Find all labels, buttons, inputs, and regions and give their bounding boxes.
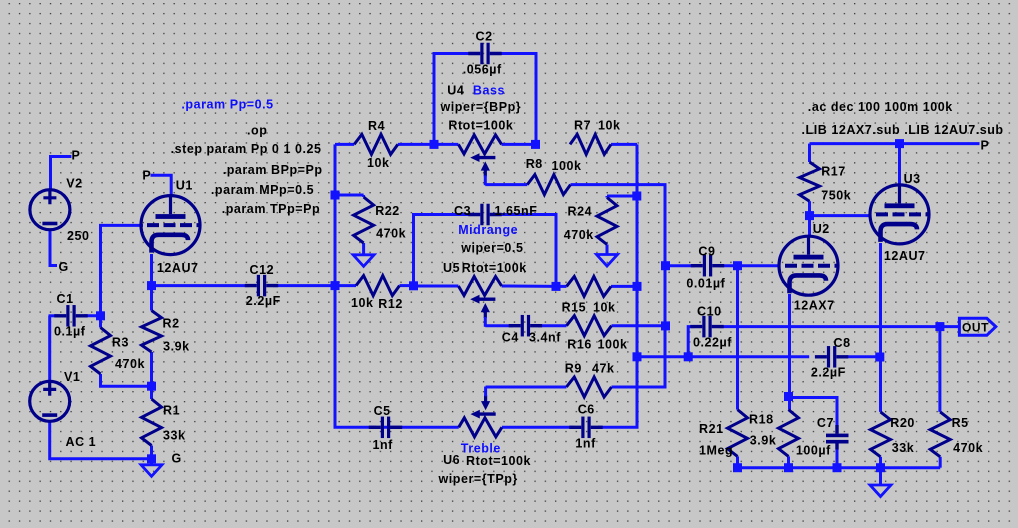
- svg-text:R22: R22: [375, 204, 400, 218]
- svg-text:U4: U4: [447, 84, 464, 98]
- svg-text:Rtot=100k: Rtot=100k: [448, 119, 513, 133]
- svg-text:Rtot=100k: Rtot=100k: [462, 261, 527, 275]
- svg-text:U3: U3: [904, 172, 921, 186]
- wire U3 plate: [898, 144, 901, 185]
- resistor R9: [566, 377, 611, 397]
- wire C1 right to junction: [84, 314, 101, 317]
- svg-text:R16: R16: [567, 337, 592, 351]
- svg-text:R12: R12: [378, 297, 403, 311]
- svg-text:P: P: [142, 169, 151, 183]
- wire U3 cathode down to R20: [879, 243, 882, 412]
- svg-text:0.1µf: 0.1µf: [54, 325, 86, 339]
- wire R3 bottom to R1 top junction: [101, 374, 152, 386]
- wire to C7 top: [790, 398, 838, 426]
- svg-text:V1: V1: [64, 370, 80, 384]
- node row357 left: [633, 352, 642, 361]
- svg-text:Rtot=100k: Rtot=100k: [466, 454, 531, 468]
- wire rail to R4: [335, 143, 354, 146]
- potentiometer U6 Treble: [459, 418, 502, 437]
- svg-text:470k: 470k: [376, 227, 406, 241]
- svg-text:3.4nf: 3.4nf: [529, 331, 561, 345]
- wire row y=357 to C8: [637, 355, 809, 358]
- svg-text:R24: R24: [568, 204, 593, 218]
- svg-text:10k: 10k: [351, 296, 374, 310]
- wire rail to R12: [335, 284, 356, 287]
- node R16/C4: [661, 321, 670, 330]
- svg-text:R21: R21: [699, 422, 724, 436]
- svg-text:R1: R1: [163, 403, 180, 417]
- capacitor C7: [826, 434, 849, 438]
- capacitor C1: [66, 305, 69, 327]
- node bass left: [430, 140, 439, 149]
- wire top rail to node P: [810, 142, 980, 145]
- svg-text:wiper={BPp}: wiper={BPp}: [440, 100, 522, 114]
- wire top rail to R17: [808, 144, 811, 162]
- resistor R22: [354, 197, 374, 243]
- wire C10 left stub: [688, 327, 694, 357]
- voltage source V1: [30, 381, 70, 421]
- svg-text:1.65nF: 1.65nF: [495, 204, 538, 218]
- svg-text:U1: U1: [176, 179, 193, 193]
- resistor R1: [142, 399, 162, 446]
- svg-text:R17: R17: [821, 164, 846, 178]
- svg-text:100µf: 100µf: [796, 443, 831, 457]
- capacitor C10: [702, 316, 705, 338]
- voltage source V2: [30, 190, 70, 230]
- wire junction to R15: [556, 285, 567, 288]
- wire R21 bottom to rail: [736, 456, 739, 467]
- wire junction to R22: [335, 194, 364, 197]
- svg-text:OUT: OUT: [962, 321, 989, 335]
- svg-text:R4: R4: [368, 119, 385, 133]
- potentiometer U5 Midrange: [458, 277, 501, 296]
- svg-text:P: P: [981, 139, 990, 153]
- svg-text:47k: 47k: [592, 362, 615, 376]
- node rail/C12: [331, 281, 340, 290]
- capacitor C9: [703, 255, 706, 277]
- capacitor C6: [581, 417, 584, 439]
- wire midrange pot right: [502, 285, 556, 288]
- svg-text:R2: R2: [163, 317, 180, 331]
- svg-text:0.22µf: 0.22µf: [693, 335, 732, 349]
- svg-text:.param BPp=Pp: .param BPp=Pp: [223, 163, 323, 177]
- capacitor C8: [827, 346, 830, 368]
- node U2 plate/R17: [805, 211, 814, 220]
- node flag OUT: [959, 318, 995, 335]
- wire U1 cathode to C12: [152, 284, 250, 287]
- svg-text:3.9k: 3.9k: [163, 339, 190, 353]
- node R7/R24: [632, 192, 641, 201]
- wire U2 plate to U3 grid: [810, 214, 870, 217]
- svg-text:V2: V2: [66, 177, 82, 191]
- node C10 stub: [684, 352, 693, 361]
- node rail R21: [733, 463, 742, 472]
- svg-text:wiper=0.5: wiper=0.5: [460, 241, 523, 255]
- resistor R12: [356, 276, 400, 296]
- resistor R17: [800, 162, 820, 201]
- wire R24 stub: [606, 196, 609, 198]
- svg-text:.ac dec 100 100m 100k: .ac dec 100 100m 100k: [808, 100, 953, 114]
- node U3 plate/P rail: [895, 139, 904, 148]
- svg-text:G: G: [59, 260, 69, 274]
- wire R22 bottom to ground: [362, 243, 365, 255]
- wire C1 junction up to U1 grid: [101, 225, 144, 315]
- capacitor C5: [381, 417, 384, 439]
- svg-text:12AX7: 12AX7: [794, 299, 835, 313]
- resistor R18: [779, 410, 799, 457]
- node rail R20/gnd: [876, 463, 885, 472]
- wire up to C3 left: [414, 215, 472, 286]
- wire bass pot right: [502, 143, 536, 146]
- resistor R24: [597, 198, 617, 245]
- resistor R2: [142, 311, 162, 353]
- svg-text:U5: U5: [443, 261, 460, 275]
- resistor R4: [354, 134, 398, 154]
- ground bottom right: [870, 485, 891, 497]
- wire junction to C9: [666, 264, 695, 267]
- wire left rail x=335 from R4 down to C5: [335, 144, 376, 427]
- ground below R22: [353, 255, 374, 266]
- wire R24 bottom to ground: [606, 245, 609, 255]
- wire R16 right to junction x=665.5: [612, 324, 666, 327]
- svg-text:2.2µF: 2.2µF: [811, 366, 846, 380]
- svg-text:.param Pp=0.5: .param Pp=0.5: [181, 98, 273, 112]
- wire V1 bottom to ground rail: [50, 421, 152, 459]
- svg-text:470k: 470k: [953, 441, 983, 455]
- node mid right: [552, 282, 561, 291]
- svg-text:.op: .op: [247, 124, 267, 138]
- resistor R7: [570, 134, 611, 154]
- wire junction to R2 top: [150, 286, 153, 311]
- node rail C7: [833, 463, 842, 472]
- wire C5 to treble pot: [381, 426, 459, 429]
- svg-text:C5: C5: [374, 404, 391, 418]
- wire V2 bottom to node G: [50, 230, 57, 266]
- svg-text:10k: 10k: [367, 156, 390, 170]
- wire C9 right to U2 grid: [720, 264, 780, 267]
- wire junction to U2 plate: [808, 216, 811, 237]
- wire to bass pot left: [434, 143, 458, 146]
- wire U1 cathode down: [150, 254, 153, 286]
- svg-text:R8: R8: [526, 157, 543, 171]
- svg-text:C8: C8: [834, 336, 851, 350]
- wire midrange wiper to C4: [485, 324, 512, 327]
- node U1 cathode: [147, 281, 156, 290]
- svg-text:Bass: Bass: [473, 84, 505, 98]
- svg-text:C6: C6: [578, 402, 595, 416]
- node rail/R22: [331, 191, 340, 200]
- svg-text:470k: 470k: [115, 357, 145, 371]
- svg-text:.param MPp=0.5: .param MPp=0.5: [211, 183, 314, 197]
- svg-text:2.2µF: 2.2µF: [246, 294, 281, 308]
- svg-text:33k: 33k: [892, 441, 915, 455]
- ground below R1: [141, 465, 162, 477]
- wire R9 right: [612, 386, 666, 389]
- triode U3: [870, 185, 931, 244]
- wire R8 right down x=665.5 to R9: [571, 185, 666, 387]
- svg-text:10k: 10k: [598, 119, 621, 133]
- resistor R8: [527, 175, 570, 195]
- node C9 right/U2 grid: [733, 261, 742, 270]
- node U2 cathode/R18: [784, 392, 793, 401]
- svg-text:1Meg: 1Meg: [699, 444, 733, 458]
- svg-text:750k: 750k: [821, 189, 851, 203]
- wire R17 bottom to junction: [808, 201, 811, 215]
- node R2/R1: [147, 382, 156, 391]
- svg-text:C10: C10: [697, 305, 722, 319]
- wire treble pot to C6: [502, 426, 574, 429]
- wire R1 bottom to ground: [150, 446, 153, 465]
- resistor R5: [930, 412, 950, 457]
- triode U2: [779, 236, 840, 295]
- svg-text:3.9k: 3.9k: [750, 433, 777, 447]
- svg-text:33k: 33k: [163, 428, 186, 442]
- wire bass wiper to R8: [485, 183, 527, 186]
- wire to P label: [51, 155, 72, 158]
- wire treble wiper row to R9: [486, 386, 567, 389]
- wire R20 bottom to rail: [879, 457, 882, 468]
- node OUT/R5: [935, 322, 944, 331]
- svg-text:C3: C3: [454, 204, 471, 218]
- svg-text:U6: U6: [443, 453, 460, 467]
- svg-text:C9: C9: [698, 244, 715, 258]
- wire R4 to bass-left junction: [398, 143, 434, 146]
- wire R24 top to junction: [607, 195, 637, 198]
- wire C2 right down to bass-right junction: [495, 54, 537, 145]
- svg-text:C7: C7: [817, 416, 834, 430]
- wire R12 to C3 junction: [400, 284, 414, 287]
- wire U2 cathode down to R18: [788, 294, 791, 410]
- svg-text:C2: C2: [476, 29, 493, 43]
- wire P to U1 plate: [151, 175, 172, 196]
- wire up to C2 left: [434, 54, 476, 145]
- wire junction to R3 top: [99, 316, 102, 328]
- wire long vertical x=637 down to C6: [598, 144, 637, 427]
- node rail R18: [784, 463, 793, 472]
- svg-text:12AU7: 12AU7: [884, 249, 926, 263]
- svg-text:R3: R3: [112, 335, 129, 349]
- capacitor C4: [521, 315, 524, 337]
- svg-text:R18: R18: [749, 412, 774, 426]
- wire C7 bottom to rail: [836, 444, 839, 468]
- svg-text:R5: R5: [952, 416, 969, 430]
- svg-text:wiper={TPp}: wiper={TPp}: [438, 472, 518, 486]
- wire OUT row down to R5: [938, 327, 941, 412]
- resistor R20: [871, 412, 891, 457]
- wire R22 top: [362, 195, 365, 197]
- wire R2 bottom to R1 top: [150, 352, 153, 399]
- wire rail corner up to R5: [939, 457, 942, 468]
- svg-text:12AU7: 12AU7: [157, 261, 199, 275]
- ground below R24: [597, 255, 618, 267]
- node mid left: [409, 281, 418, 290]
- svg-text:1nf: 1nf: [373, 438, 394, 452]
- node bass right: [531, 140, 540, 149]
- svg-text:.056µf: .056µf: [463, 63, 502, 77]
- svg-text:100k: 100k: [598, 337, 628, 351]
- resistor R15: [567, 276, 612, 296]
- resistor R16: [567, 316, 612, 336]
- svg-text:0.01µf: 0.01µf: [686, 277, 725, 291]
- node C1/R3: [96, 311, 105, 320]
- svg-text:R15: R15: [562, 300, 587, 314]
- wire C8 right to junction: [848, 355, 881, 358]
- svg-text:C12: C12: [250, 263, 275, 277]
- svg-text:.step param Pp 0 1 0.25: .step param Pp 0 1 0.25: [171, 142, 322, 156]
- wire C12 to left rail junction: [273, 284, 335, 287]
- svg-text:C1: C1: [57, 292, 74, 306]
- svg-text:R7: R7: [574, 119, 591, 133]
- node V1/R1 G: [147, 454, 156, 463]
- svg-text:100k: 100k: [552, 159, 582, 173]
- node C8/R20/U3 cathode: [875, 353, 884, 362]
- svg-text:R9: R9: [565, 362, 582, 376]
- wire C3 right down: [499, 215, 556, 287]
- wire C4 to R16: [538, 324, 567, 327]
- node R15: [633, 282, 642, 291]
- svg-text:AC 1: AC 1: [66, 435, 97, 449]
- svg-text:P: P: [72, 149, 81, 163]
- wire to midrange pot left: [414, 285, 459, 288]
- wire junction down to R21: [736, 266, 739, 410]
- capacitor C12: [257, 275, 260, 297]
- potentiometer U4 Bass: [458, 135, 501, 154]
- resistor R3: [91, 328, 111, 375]
- wire R18 bottom to rail: [787, 456, 790, 467]
- wire R15 right to junction: [611, 285, 637, 288]
- svg-text:.LIB 12AX7.sub .LIB 12AU7.sub: .LIB 12AX7.sub .LIB 12AU7.sub: [802, 123, 1004, 137]
- svg-text:U2: U2: [813, 222, 830, 236]
- wire V1 top to C1: [48, 316, 51, 382]
- wire to ground bottom right: [879, 468, 882, 485]
- svg-text:470k: 470k: [564, 228, 594, 242]
- svg-text:G: G: [172, 451, 182, 465]
- svg-text:1nf: 1nf: [575, 436, 596, 450]
- svg-text:10k: 10k: [593, 300, 616, 314]
- node C9 left: [661, 261, 670, 270]
- wire C10 right to OUT: [720, 325, 960, 328]
- svg-text:C4: C4: [502, 331, 519, 345]
- triode U1: [141, 196, 202, 255]
- capacitor C2: [480, 43, 483, 65]
- wire V2 top to node P: [49, 155, 52, 190]
- wire C1 left: [49, 314, 59, 317]
- svg-text:250: 250: [67, 229, 90, 243]
- svg-text:R20: R20: [890, 416, 915, 430]
- wire bottom rail: [738, 466, 941, 469]
- capacitor C3: [480, 204, 483, 226]
- resistor R21: [728, 410, 748, 457]
- svg-text:.param TPp=Pp: .param TPp=Pp: [222, 202, 321, 216]
- svg-text:Midrange: Midrange: [458, 223, 518, 237]
- wire R7 right to corner: [611, 143, 637, 146]
